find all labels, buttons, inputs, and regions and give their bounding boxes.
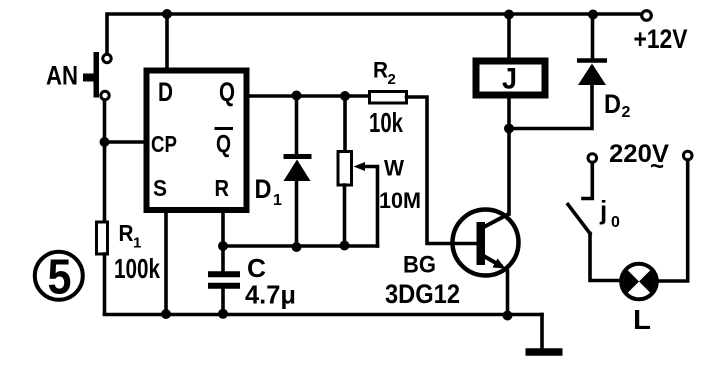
node emitter-rail junction [503,311,513,321]
relay J coil box [476,61,545,95]
svg-text:10M: 10M [379,188,421,213]
wire R2 to base [407,97,478,244]
wire switch fixed contact [583,163,592,199]
wire collector to relay [507,98,511,214]
svg-text:C: C [247,253,266,283]
wire bottom rail [105,313,543,317]
label j0 [599,195,620,231]
resistor R2 [370,92,407,104]
terminal 220V left [588,154,597,163]
node CP junction [100,137,110,147]
terminal 220V right [683,151,692,160]
wire R pin down [221,212,225,273]
potentiometer W wiper arrow [354,162,378,246]
wire D pin [165,14,169,70]
figure number 5 [35,251,83,305]
node S-rail junction [161,309,171,319]
svg-text:D: D [604,89,621,119]
wire relay top [507,14,511,58]
capacitor C [208,274,240,285]
svg-text:L: L [633,304,651,335]
node Q-D1 junction [292,91,302,101]
svg-text:0: 0 [611,214,620,231]
label R2 [373,58,396,89]
node R-C junction [218,241,228,251]
wire C to bottom rail [221,288,225,314]
wire emitter down [506,271,510,316]
wire CP pin [105,140,147,144]
wire R1 to bottom rail [103,254,107,314]
potentiometer W body [338,152,352,186]
diode D1 [284,157,312,182]
lamp L [621,264,657,300]
node relay-D2 junction [504,124,514,134]
wire button to R1 [103,100,107,222]
svg-text:Q: Q [219,77,235,107]
svg-text:1: 1 [133,235,141,252]
switch j0 blade [568,205,590,234]
node D1-net junction [292,242,302,252]
ground [526,348,563,356]
svg-text:10k: 10k [369,107,403,138]
wire W top [343,96,347,152]
wire right terminal to lamp [658,160,688,281]
svg-text:Q: Q [216,131,231,159]
svg-text:j: j [599,195,607,225]
wire top +12V rail [107,14,642,56]
svg-text:W: W [384,156,404,181]
node rail-D junction [162,9,172,19]
wire S pin down [164,212,168,314]
svg-text:R: R [215,175,230,201]
label 220V [609,140,669,180]
svg-text:4.7μ: 4.7μ [245,280,296,310]
svg-text:1: 1 [273,192,282,209]
svg-text:100k: 100k [114,253,160,284]
wire Q output [247,94,370,98]
svg-text:BG: BG [403,252,436,279]
wire to ground [540,315,544,350]
node W-net junction [340,241,350,251]
svg-text:D: D [255,174,272,204]
svg-text:2: 2 [388,71,396,88]
IC D flip-flop box [147,71,247,211]
svg-text:AN: AN [46,61,78,91]
wire D2 bottom return [509,85,592,129]
svg-text:2: 2 [622,104,631,121]
svg-text:5: 5 [48,251,72,305]
resistor R1 [97,222,108,254]
node C-rail junction [218,309,228,319]
node rail-D2 junction [588,10,598,20]
node rail-relay junction [504,10,514,20]
wire D1 top [295,96,299,154]
label R1 [119,220,142,252]
pin label Qbar [215,129,234,159]
svg-text:D: D [158,77,173,107]
wire switch to lamp [590,234,620,281]
terminal +12V [642,11,652,21]
svg-text:J: J [502,63,517,96]
label D1 [255,174,283,209]
wire W bottom [343,185,347,246]
svg-text:R: R [119,220,134,246]
wire R/C horizontal net [223,244,378,248]
label D2 [604,89,631,121]
transistor BG 3DG12 [453,210,519,276]
wire D1 bottom [295,180,299,247]
svg-text:~: ~ [650,153,664,180]
pushbutton AN [83,52,111,100]
svg-text:3DG12: 3DG12 [385,279,460,309]
svg-text:R: R [373,58,388,83]
svg-text:S: S [153,175,167,201]
svg-text:CP: CP [151,131,177,157]
svg-text:+12V: +12V [634,24,688,54]
diode D2 [577,61,607,86]
wire D2 top [591,14,595,58]
node Q-W junction [340,91,350,101]
